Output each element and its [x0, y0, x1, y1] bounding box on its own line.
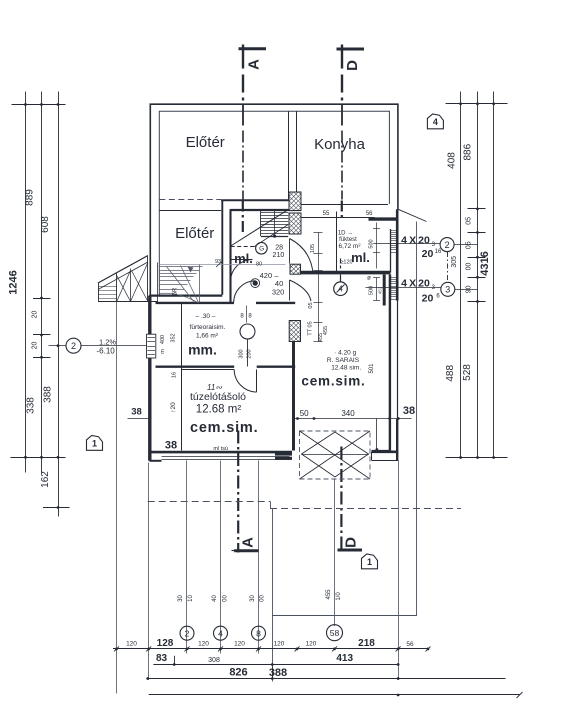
west wall upper segment	[148, 296, 151, 335]
tuzelo inner top line	[182, 369, 234, 371]
svg-text:4316: 4316	[479, 251, 491, 275]
svg-text:56: 56	[366, 211, 373, 217]
circle fixture mm	[240, 324, 255, 339]
exterior stair west	[98, 256, 148, 284]
svg-text:ø: ø	[367, 276, 371, 282]
svg-text:826: 826	[229, 667, 247, 679]
svg-text:Előtér: Előtér	[186, 134, 225, 151]
svg-text:3: 3	[445, 285, 450, 295]
door cem.sim upper arc	[290, 239, 314, 274]
svg-text:ml tsú: ml tsú	[213, 446, 228, 452]
svg-text:162: 162	[40, 471, 51, 488]
dim string vertical in plan	[318, 233, 320, 342]
gray level line 93	[159, 264, 285, 266]
circle 4 crossed	[334, 282, 348, 296]
svg-text:80: 80	[256, 261, 262, 267]
right vertical dimension chain	[460, 92, 462, 458]
svg-text:30: 30	[250, 595, 256, 602]
svg-text:55: 55	[323, 211, 330, 217]
svg-text:A: A	[246, 59, 263, 70]
svg-text:40: 40	[212, 595, 218, 602]
partition fuktest	[336, 212, 338, 272]
svg-text:120: 120	[234, 641, 245, 648]
svg-text:ml.: ml.	[351, 250, 370, 265]
svg-text:16: 16	[172, 372, 178, 378]
left vertical dimension chain	[25, 92, 27, 473]
svg-text:886: 886	[462, 143, 473, 160]
svg-text:Előtér: Előtér	[175, 225, 214, 242]
window east lower	[391, 277, 397, 279]
bottom dim line 2	[153, 664, 398, 666]
svg-text:G: G	[259, 246, 264, 253]
svg-text:889: 889	[25, 189, 36, 206]
section marker A top	[239, 47, 267, 50]
window east upper	[391, 230, 397, 232]
svg-text:6,72 m²: 6,72 m²	[338, 243, 361, 250]
svg-text:38: 38	[403, 405, 415, 417]
svg-text:120: 120	[198, 641, 209, 648]
svg-text:210: 210	[273, 252, 285, 259]
winder stairs lower hall	[159, 266, 202, 268]
svg-text:– .30 –: – .30 –	[196, 313, 216, 320]
svg-text:·1D →: ·1D →	[336, 231, 353, 237]
hall top wall	[221, 199, 301, 201]
hatched pier 2	[289, 213, 301, 234]
svg-text:305: 305	[451, 256, 458, 268]
svg-text:12.68 m²: 12.68 m²	[196, 404, 242, 416]
svg-text:1/0: 1/0	[336, 592, 342, 601]
svg-text:-6.10: -6.10	[97, 346, 116, 355]
hatched pier 1	[289, 192, 301, 211]
svg-text:Konyha: Konyha	[314, 136, 366, 153]
svg-text:120: 120	[126, 641, 137, 648]
svg-text:340: 340	[341, 409, 355, 418]
svg-text:501: 501	[369, 363, 375, 374]
svg-text:408: 408	[446, 152, 457, 169]
svg-text:20: 20	[422, 293, 434, 305]
svg-text:4 X 20: 4 X 20	[401, 277, 430, 289]
svg-text:20: 20	[32, 342, 39, 350]
top-right diagonal	[398, 209, 427, 221]
svg-text:fürteoraisim.: fürteoraisim.	[190, 324, 226, 331]
level marker circle 2 with 1.2% -6.10	[49, 345, 67, 347]
hexagon badge 4	[427, 114, 443, 129]
door hall south arc	[234, 281, 256, 303]
bottom dim line 4	[149, 694, 520, 696]
svg-text:ml.: ml.	[234, 251, 253, 266]
cem.sim west wall	[292, 342, 295, 451]
svg-text:83: 83	[156, 653, 168, 664]
hall east wall inner line	[229, 209, 231, 302]
svg-text:↑20: ↑20	[170, 402, 177, 413]
door hall-ml arc	[231, 260, 253, 282]
svg-text:00: 00	[223, 595, 229, 602]
section marker D top	[337, 48, 365, 51]
svg-text:2: 2	[445, 240, 450, 250]
svg-text:120: 120	[274, 641, 285, 648]
bottom axis circles	[180, 626, 194, 640]
svg-text:105: 105	[310, 244, 316, 253]
svg-text:200: 200	[247, 349, 253, 358]
door cem.sim lower arc	[290, 280, 312, 301]
ml room top wall	[230, 209, 301, 211]
svg-text:A: A	[240, 537, 257, 548]
svg-text:128: 128	[157, 638, 174, 649]
dashed floor-over line	[159, 199, 221, 201]
terrace diamond skylight	[300, 431, 371, 479]
dim 50 340 38 line	[295, 418, 412, 420]
partition mm/wc thin	[181, 304, 183, 451]
svg-text:túzelótášoló: túzelótášoló	[190, 391, 246, 403]
section marker A bottom	[237, 431, 239, 553]
svg-text:1,66 m²: 1,66 m²	[196, 333, 219, 340]
svg-text:90: 90	[466, 285, 473, 293]
svg-text:56: 56	[406, 641, 414, 648]
svg-text:528: 528	[462, 364, 473, 381]
svg-text:20: 20	[422, 248, 434, 260]
circle G stair	[256, 242, 268, 254]
section marker D bottom	[340, 447, 342, 551]
svg-text:320: 320	[272, 287, 285, 296]
svg-text:1246: 1246	[8, 270, 20, 294]
hall top line	[159, 210, 221, 212]
svg-text:05: 05	[308, 302, 314, 308]
svg-text:218: 218	[358, 638, 375, 649]
guide verticals to bottom dims	[116, 302, 118, 694]
svg-text:2: 2	[185, 628, 190, 638]
svg-text:4 X 20: 4 X 20	[401, 235, 430, 247]
window west wall	[147, 334, 156, 358]
hexagon badge 1 right	[362, 554, 378, 569]
svg-text:58: 58	[330, 628, 340, 638]
bottom dim line 1	[113, 648, 428, 650]
svg-text:16: 16	[435, 249, 442, 255]
svg-text:05: 05	[466, 241, 473, 249]
svg-text:1.2%: 1.2%	[99, 337, 116, 346]
cem.sim north thick wall	[301, 271, 391, 275]
west wall lower segment	[148, 358, 151, 461]
svg-text:TT 05: TT 05	[308, 321, 314, 335]
south wall with window band	[150, 451, 293, 454]
svg-text:500: 500	[369, 239, 375, 248]
svg-text:388: 388	[269, 667, 287, 679]
svg-text:38: 38	[131, 407, 142, 418]
svg-text:00: 00	[260, 595, 266, 602]
svg-text:2: 2	[71, 341, 76, 351]
hatched block mid	[290, 264, 301, 274]
east top corner wall	[369, 217, 398, 220]
svg-text:D: D	[344, 60, 361, 71]
door mm wall arc	[376, 370, 397, 391]
svg-text:455: 455	[326, 589, 332, 600]
svg-text:cem.sim.: cem.sim.	[301, 374, 365, 389]
svg-text:455: 455	[323, 326, 329, 335]
svg-text:300: 300	[239, 349, 245, 358]
interior stair upper	[231, 210, 289, 246]
svg-text:1: 1	[92, 439, 97, 449]
beam label 4x20 lower + circle 3	[366, 287, 441, 289]
svg-text:352: 352	[171, 333, 177, 342]
svg-text:05: 05	[466, 217, 473, 225]
svg-text:50: 50	[300, 409, 309, 418]
svg-text:4: 4	[433, 117, 438, 127]
svg-text:4: 4	[218, 628, 223, 638]
svg-text:· 4.20 g: · 4.20 g	[334, 350, 356, 357]
svg-text:413: 413	[336, 653, 353, 664]
svg-text:93: 93	[215, 259, 221, 265]
svg-text:38: 38	[165, 440, 177, 452]
site boundary dashed	[148, 501, 270, 503]
svg-text:12.48 sim.: 12.48 sim.	[331, 365, 361, 372]
wall mm south (tuzelo north)	[156, 366, 235, 368]
konyha bottom dim lines 55 56	[301, 204, 388, 206]
svg-text:8: 8	[256, 628, 261, 638]
svg-text:cem.sim.: cem.sim.	[190, 420, 258, 436]
east wall lines	[396, 209, 399, 300]
site boundary right vertical	[416, 222, 418, 616]
svg-text:1: 1	[367, 557, 372, 567]
svg-text:00: 00	[466, 263, 473, 271]
svg-text:20: 20	[32, 311, 39, 319]
svg-text:mm.: mm.	[188, 342, 217, 358]
beam label 4x20 upper + circle 2	[373, 243, 440, 245]
svg-text:R. SARAIS: R. SARAIS	[327, 357, 360, 364]
svg-text:≥120: ≥120	[340, 260, 352, 266]
svg-text:D: D	[343, 537, 360, 548]
hexagon badge 1 left	[87, 436, 103, 451]
wall stair-hall south main	[156, 302, 235, 304]
svg-text:308: 308	[208, 657, 220, 664]
site boundary solid lower	[272, 508, 274, 682]
svg-text:120: 120	[306, 641, 317, 648]
hall east wall outer line	[221, 200, 223, 295]
svg-text:400: 400	[160, 335, 166, 344]
short wall stub below	[383, 275, 386, 306]
svg-text:28: 28	[275, 245, 283, 252]
svg-text:388: 388	[43, 386, 54, 403]
hatched pier 3	[289, 321, 300, 342]
svg-text:30: 30	[178, 595, 184, 602]
upper partition wall	[288, 111, 290, 199]
svg-text:10: 10	[188, 595, 194, 602]
upper floor outer+inner outline	[150, 104, 398, 299]
svg-text:m: m	[160, 349, 166, 354]
door mm-tuzelo arc	[234, 370, 257, 393]
svg-text:488: 488	[445, 365, 456, 382]
svg-text:338: 338	[26, 397, 37, 414]
svg-text:608: 608	[40, 216, 51, 233]
wall stair-hall south upper	[149, 295, 222, 297]
thin line terrace door	[376, 419, 378, 451]
svg-text:5R: 5R	[173, 287, 179, 295]
south-east wall jog terrace door	[372, 450, 399, 453]
bottom dim line 3	[148, 678, 506, 680]
